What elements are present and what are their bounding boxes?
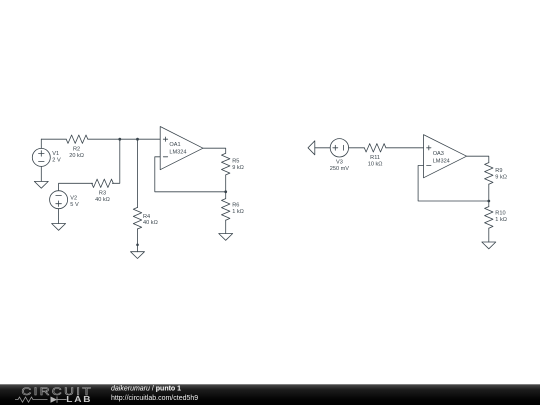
svg-text:9 kΩ: 9 kΩ bbox=[495, 175, 507, 181]
svg-text:V1: V1 bbox=[52, 151, 59, 157]
svg-text:10 kΩ: 10 kΩ bbox=[368, 162, 383, 168]
svg-text:1 kΩ: 1 kΩ bbox=[232, 209, 244, 215]
svg-text:1 kΩ: 1 kΩ bbox=[495, 217, 507, 223]
svg-text:V2: V2 bbox=[70, 196, 77, 202]
svg-text:40 kΩ: 40 kΩ bbox=[95, 197, 110, 203]
svg-text:9 kΩ: 9 kΩ bbox=[232, 165, 244, 171]
svg-text:R11: R11 bbox=[370, 155, 380, 161]
svg-text:20 kΩ: 20 kΩ bbox=[69, 153, 84, 159]
svg-text:http://circuitlab.com/cted5h9: http://circuitlab.com/cted5h9 bbox=[111, 395, 198, 402]
svg-text:R2: R2 bbox=[73, 147, 80, 153]
svg-text:V3: V3 bbox=[336, 160, 343, 166]
svg-text:250 mV: 250 mV bbox=[330, 166, 350, 172]
svg-text:R10: R10 bbox=[495, 211, 505, 217]
svg-text:LM324: LM324 bbox=[169, 150, 186, 156]
svg-text:2 V: 2 V bbox=[52, 157, 61, 163]
svg-text:R5: R5 bbox=[232, 159, 239, 165]
svg-text:daikerumaru / punto 1: daikerumaru / punto 1 bbox=[111, 385, 181, 392]
svg-text:R3: R3 bbox=[99, 191, 106, 197]
svg-text:LM324: LM324 bbox=[433, 158, 450, 164]
svg-text:LAB: LAB bbox=[66, 395, 92, 404]
svg-text:R6: R6 bbox=[232, 202, 239, 208]
svg-text:5 V: 5 V bbox=[70, 202, 79, 208]
svg-text:R4: R4 bbox=[143, 214, 150, 220]
svg-text:OA1: OA1 bbox=[169, 142, 180, 148]
svg-text:OA3: OA3 bbox=[433, 151, 444, 157]
svg-text:R9: R9 bbox=[495, 168, 502, 174]
svg-text:40 kΩ: 40 kΩ bbox=[143, 220, 158, 226]
